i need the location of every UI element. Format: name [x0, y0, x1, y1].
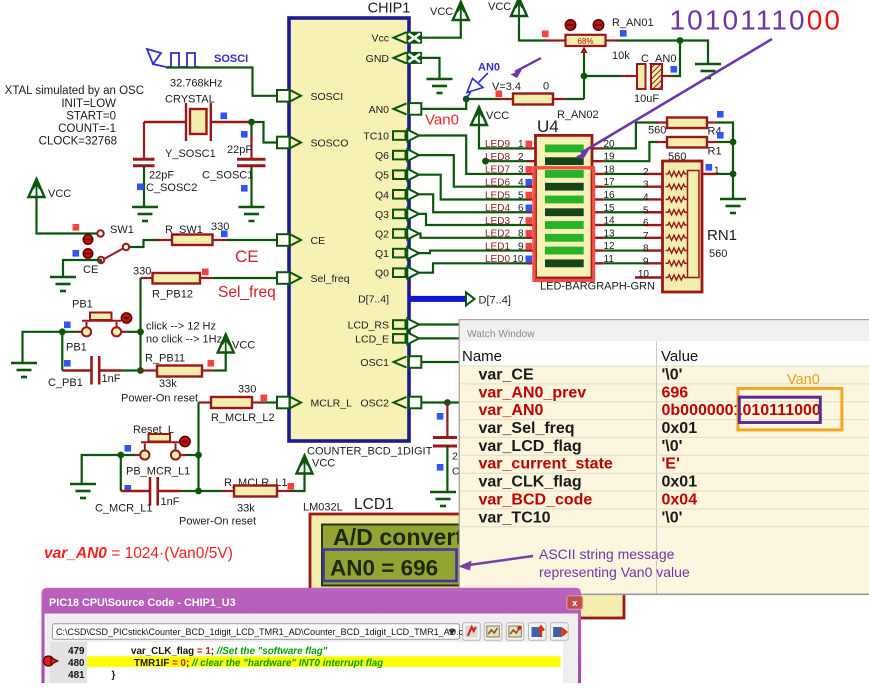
svg-text:D[7..4]: D[7..4] [358, 294, 389, 306]
capacitor C_SOSC1 [237, 159, 266, 166]
pushbutton PB1 [82, 313, 121, 337]
svg-text:VCC: VCC [232, 340, 255, 352]
LED segment LED5 (on) [545, 196, 584, 204]
pin LCD_RS output pin [393, 320, 406, 329]
svg-text:Power-On reset: Power-On reset [179, 516, 256, 528]
wire U4 pin 14 to RN1 pin 6 [604, 224, 644, 226]
watch row var_current_state [460, 454, 869, 456]
pin Sel_freq input pin [277, 272, 290, 284]
svg-text:TMR1IF = 0; // clear the "hard: TMR1IF = 0; // clear the "hardware" INT0… [134, 658, 383, 669]
voltage probe AN0 (blue) [467, 73, 489, 98]
capacitor C_MCR_L1 [121, 477, 180, 506]
marker R4 blue [717, 111, 724, 118]
svg-text:330: 330 [238, 384, 256, 396]
svg-text:var_BCD_code: var_BCD_code [479, 491, 593, 508]
U4 pin 20 stub [592, 147, 604, 149]
svg-text:U4: U4 [537, 117, 559, 136]
marker pin5 red [526, 192, 533, 199]
marker R_MCLR_L1 red [288, 483, 295, 490]
wire node to ground [680, 41, 708, 64]
resistor R_SW1 [172, 235, 213, 246]
code area [50, 642, 563, 685]
svg-text:Vcc: Vcc [371, 33, 389, 45]
potentiometer R_AN01 [545, 39, 566, 41]
pin TC10 output pin [393, 131, 406, 140]
wire C_SOSC2 to ground [143, 166, 145, 206]
svg-text:1010111000: 1010111000 [670, 5, 843, 36]
U4 pin 18 stub [592, 173, 604, 175]
wire U4 pin 16 to RN1 pin 4 [604, 198, 644, 200]
wire wiper to C_AN0 [584, 75, 622, 77]
svg-text:var_current_state: var_current_state [479, 456, 613, 473]
svg-text:SOSCI: SOSCI [311, 91, 344, 103]
wire junction to SOSCO pin [252, 122, 278, 143]
svg-text:Sel_freq: Sel_freq [218, 284, 276, 301]
svg-text:R_MCLR_L2: R_MCLR_L2 [211, 412, 275, 424]
svg-text:696: 696 [662, 384, 689, 401]
lead R1 right [707, 141, 717, 143]
svg-text:6: 6 [518, 203, 524, 214]
wire junction to R_AN02 [466, 98, 500, 100]
wire C_AN0 to node [673, 41, 680, 77]
svg-text:560: 560 [648, 125, 666, 137]
pin LCD_E output pin [393, 334, 406, 343]
svg-text:Q1: Q1 [375, 248, 389, 260]
pin GND power pin [394, 52, 407, 63]
svg-text:10k: 10k [612, 50, 630, 62]
svg-text:8: 8 [518, 229, 524, 240]
svg-text:LED2: LED2 [485, 229, 510, 240]
svg-text:LED8: LED8 [485, 152, 510, 163]
annotation arrow to LED8 [581, 39, 772, 153]
svg-text:SOSCO: SOSCO [311, 138, 349, 150]
RN1 element at y=238 [666, 235, 688, 240]
U4 pin 10 stub [527, 262, 536, 264]
wire to R_MCLR_L1 [180, 490, 222, 492]
ground [70, 484, 96, 498]
svg-text:2: 2 [452, 451, 458, 463]
svg-text:ASCII string message: ASCII string message [539, 546, 675, 562]
lead R_MCLR_L1 left [222, 490, 234, 492]
marker pin9 red [526, 243, 533, 250]
svg-text:COUNT=-1: COUNT=-1 [58, 123, 116, 135]
svg-text:6: 6 [643, 218, 649, 229]
LED segment LED8 (off) [545, 157, 584, 165]
svg-text:LED7: LED7 [485, 165, 510, 176]
resistor R_PB12 [153, 273, 201, 284]
VCC power symbol (U4) [471, 107, 487, 125]
svg-text:33k: 33k [237, 503, 255, 515]
VCC power symbol (pot) [511, 0, 527, 16]
U4 pin 8 stub [527, 237, 536, 239]
watch window title bar [460, 320, 869, 341]
wire TC10 to U4 pin 3 [419, 136, 528, 174]
resistor R_PB11 [157, 366, 202, 377]
svg-text:AN0: AN0 [369, 104, 390, 116]
junction C_PB1 / R_PB11 [137, 367, 144, 374]
marker C_OSC2 blue b [437, 464, 444, 471]
marker SW1 blue [73, 250, 80, 257]
wire SW1 lever to R_SW1 [129, 240, 160, 247]
svg-text:1nF: 1nF [161, 496, 180, 508]
svg-text:R_AN02: R_AN02 [557, 109, 599, 121]
marker C_SOSC2 blue [137, 184, 144, 191]
svg-text:LED-BARGRAPH-GRN: LED-BARGRAPH-GRN [540, 281, 655, 293]
wire PB_MCR_L1 right [180, 454, 186, 456]
resistor R1 [667, 137, 707, 148]
resistor network RN1 [663, 161, 703, 292]
svg-text:SOSCI: SOSCI [214, 53, 248, 65]
svg-text:START=0: START=0 [66, 111, 116, 123]
svg-text:C_AN0: C_AN0 [641, 53, 676, 65]
wire U4 pin 13 to RN1 pin 7 [604, 237, 644, 239]
ground [50, 277, 76, 291]
ground [132, 207, 158, 221]
LED segment LED2 (on) [545, 234, 584, 242]
wire R_MCLR_L2 down [197, 403, 199, 492]
junction R1 / rail [730, 139, 737, 146]
pin MCLR_L input pin [277, 397, 290, 409]
svg-text:representing Van0 value: representing Van0 value [539, 564, 690, 580]
marker PB1 blue b [64, 360, 71, 367]
marker V probe red [496, 91, 503, 98]
wire U4 pin 11 to RN1 pin 9 [604, 262, 644, 264]
wire Q1 to U4 pin 9 [419, 251, 528, 254]
ground [11, 363, 37, 377]
lead R_MCLR_L2 right [252, 401, 263, 403]
wire VCC to pot [519, 16, 547, 41]
svg-text:CE: CE [311, 235, 326, 247]
svg-text:XTAL simulated by an OSC: XTAL simulated by an OSC [5, 85, 144, 97]
U4 pin 1 stub [527, 147, 536, 149]
wire LCD_RS [419, 323, 462, 325]
wire pot right to node [618, 39, 680, 41]
marker SW1 red [73, 224, 80, 231]
LED segment LED4 (off) [545, 208, 584, 216]
watch row var_AN0_prev [460, 383, 869, 385]
svg-text:VCC: VCC [312, 458, 335, 470]
wire junction down to C_MCR_L1 [120, 455, 122, 491]
svg-text:OSC2: OSC2 [360, 398, 389, 410]
junction pot right [677, 37, 684, 44]
marker C_SOSC1 blue b [241, 185, 248, 192]
VCC power symbol (R_PB11) [218, 335, 234, 353]
svg-text:LED9: LED9 [485, 139, 510, 150]
svg-text:Q0: Q0 [375, 268, 389, 280]
watch row var_BCD_code [460, 490, 869, 492]
yellow highlight line 480 [87, 656, 561, 667]
marker R_PB12 red [202, 269, 209, 276]
svg-text:0x04: 0x04 [662, 491, 698, 508]
switch SW1 [97, 230, 129, 263]
marker R_SW1 blue [221, 231, 228, 238]
marker pot blue [620, 30, 627, 37]
svg-text:Van0: Van0 [425, 112, 459, 129]
marker C_OSC2 blue a [437, 413, 444, 420]
wire R_PB12 down to PB1 [139, 278, 141, 371]
svg-text:1: 1 [714, 166, 720, 177]
svg-text:VCC: VCC [488, 1, 511, 13]
wire R_AN02 to wiper junction [566, 98, 584, 100]
wire U4 pin 15 to RN1 pin 5 [604, 211, 644, 213]
svg-text:7: 7 [518, 216, 524, 227]
wire OSC2 [422, 401, 463, 403]
svg-text:32.768kHz: 32.768kHz [170, 78, 223, 90]
svg-text:3: 3 [518, 165, 524, 176]
svg-text:Q2: Q2 [375, 229, 389, 241]
pin Q5 output pin [393, 170, 406, 179]
svg-text:C_MCR_L1: C_MCR_L1 [95, 503, 152, 515]
svg-text:C_SOSC1: C_SOSC1 [202, 170, 253, 182]
U4 pin 4 stub [527, 186, 536, 188]
svg-text:0x01: 0x01 [662, 420, 698, 437]
svg-text:R_AN01: R_AN01 [612, 17, 654, 29]
marker pin10 blue [526, 256, 533, 263]
pin Q4 output pin [393, 190, 406, 199]
svg-text:Q4: Q4 [375, 189, 389, 201]
svg-text:Q3: Q3 [375, 209, 389, 221]
marker RN1 blue [706, 164, 713, 171]
svg-text:8: 8 [643, 244, 649, 255]
svg-text:10: 10 [638, 269, 650, 280]
U4 pin 7 stub [527, 224, 536, 226]
source window close button [567, 596, 583, 610]
marker pin6 blue [526, 204, 533, 211]
pin Q1 output pin [393, 249, 406, 258]
svg-text:CRYSTAL: CRYSTAL [165, 94, 215, 106]
highlight box orange [738, 389, 842, 430]
svg-text:9: 9 [643, 256, 649, 267]
RN1 element at y=251 [666, 248, 688, 253]
svg-text:var_LCD_flag: var_LCD_flag [479, 438, 582, 455]
oscillator probe OSC (blue) [147, 49, 199, 67]
svg-text:PIC18 CPU\Source Code - CHIP1_: PIC18 CPU\Source Code - CHIP1_U3 [49, 597, 236, 609]
LED segment LED7 (on) [545, 170, 584, 178]
wire OSC to SOSCI pin [166, 68, 277, 96]
svg-text:LED6: LED6 [485, 178, 510, 189]
LED segment LED3 (on) [545, 221, 584, 229]
svg-text:var_AN0 = 1024·(Van0/5V): var_AN0 = 1024·(Van0/5V) [44, 545, 233, 562]
RN1 pin 10 stub [635, 276, 663, 278]
svg-text:'\0': '\0' [662, 438, 683, 455]
code gutter [50, 642, 87, 685]
svg-text:var_CLK_flag: var_CLK_flag [479, 474, 582, 491]
RN1 element at y=278 [666, 275, 688, 280]
svg-text:1nF: 1nF [102, 373, 121, 385]
wire Q6 to U4 pin 4 [419, 155, 528, 187]
U4 pin 5 stub [527, 198, 536, 200]
svg-text:1: 1 [518, 139, 524, 150]
svg-text:'\0': '\0' [662, 366, 683, 383]
svg-text:R_PB11: R_PB11 [145, 353, 185, 365]
svg-text:C_PB1: C_PB1 [48, 377, 83, 389]
wire junction down to C_PB1 [61, 332, 63, 371]
svg-text:C_SOSC2: C_SOSC2 [146, 182, 197, 194]
watch row var_CE [460, 365, 869, 367]
chip CHIP1 body [289, 18, 409, 441]
wire R_PB11 to VCC [213, 353, 226, 371]
LED segment LED9 (on) [545, 145, 584, 153]
wire LCD_E [419, 337, 462, 339]
wire PB1 left [76, 331, 82, 333]
U4 pin 12 stub [592, 249, 604, 251]
pin CE input pin [277, 234, 290, 246]
svg-text:TC10: TC10 [363, 131, 389, 143]
U4 pin 11 stub [592, 262, 604, 264]
svg-text:AN0: AN0 [478, 62, 500, 74]
RN1 pin 1 wire [702, 173, 717, 175]
resistor R_AN02 [513, 94, 553, 105]
watch row var_TC10 [460, 508, 869, 510]
marker crystal blue [221, 113, 228, 120]
wire junction to C_SOSC1 [250, 122, 252, 139]
svg-text:OSC1: OSC1 [360, 357, 389, 369]
svg-text:Q5: Q5 [375, 170, 389, 182]
watch window header row [460, 341, 869, 366]
watch window [459, 320, 869, 595]
U4 pin 19 stub [592, 160, 604, 162]
marker PB_MCR blue b [125, 485, 132, 492]
ground (pot) [695, 64, 721, 78]
crystal Y_SOSC1 [144, 103, 252, 141]
marker pin7 red [526, 217, 533, 224]
svg-text:LED3: LED3 [485, 216, 510, 227]
ground [239, 207, 265, 221]
wire wiper down [583, 54, 585, 99]
junction PB_MCR right [195, 452, 202, 459]
svg-text:'E': 'E' [662, 456, 680, 473]
svg-text:GND: GND [366, 53, 390, 65]
svg-text:R_PB12: R_PB12 [152, 289, 193, 301]
watch window bottom edge [459, 593, 869, 595]
resistor R4 [667, 118, 707, 129]
svg-text:33k: 33k [159, 378, 177, 390]
svg-text:LED5: LED5 [485, 190, 510, 201]
svg-text:no click --> 1Hz: no click --> 1Hz [146, 334, 222, 346]
junction C_MCR / R_MCLR_L1 [195, 488, 202, 495]
watch row var_CLK_flag [460, 472, 869, 474]
svg-text:5: 5 [518, 190, 524, 201]
wire U4 pin 12 to RN1 pin 8 [604, 249, 644, 251]
junction PB1 left [59, 328, 66, 335]
svg-text:22pF: 22pF [227, 144, 252, 156]
svg-text:PB1: PB1 [72, 299, 93, 311]
annotation arrow to AN0 probe [515, 58, 541, 72]
wire SW1 bottom to ground [63, 260, 101, 276]
svg-text:0: 0 [543, 81, 549, 93]
lead R_PB12 left [141, 277, 153, 279]
svg-text:var_AN0_prev: var_AN0_prev [479, 384, 587, 401]
svg-text:CLOCK=32768: CLOCK=32768 [39, 136, 117, 148]
RN1 element at y=263 [666, 261, 688, 266]
junction wiper / C_AN0 [581, 73, 588, 80]
svg-text:'\0': '\0' [662, 509, 683, 526]
U4 pin 2 stub [527, 160, 536, 162]
marker PB_MCR blue a [125, 445, 132, 452]
svg-text:0x01: 0x01 [662, 474, 698, 491]
pin Q2 output pin [393, 229, 406, 238]
lead R_PB11 right [202, 369, 213, 371]
lead R4 right / wire to ground rail [707, 121, 717, 123]
wire C_OSC2 to ground [446, 446, 448, 491]
junction PB1 right [137, 328, 144, 335]
lead R_MCLR_L1 right [277, 490, 290, 492]
PB_MCR_L1 actuator [180, 436, 190, 446]
U4 pin 17 stub [592, 186, 604, 188]
highlight box purple [739, 397, 820, 422]
marker pin1 red [526, 141, 533, 148]
svg-text:click --> 12 Hz: click --> 12 Hz [146, 321, 216, 333]
svg-text:var_AN0: var_AN0 [479, 402, 544, 419]
annotation arrow to LCD 696 [469, 556, 533, 565]
svg-text:PB1: PB1 [66, 342, 87, 354]
svg-text:MCLR_L: MCLR_L [311, 398, 353, 410]
marker R1 blue [717, 132, 724, 139]
svg-text:Van0: Van0 [787, 372, 820, 388]
svg-text:x: x [572, 598, 578, 609]
pin Q6 output pin [393, 151, 406, 160]
U4 pin 9 stub [527, 249, 536, 251]
svg-text:10uF: 10uF [634, 93, 659, 105]
source code window [42, 588, 583, 688]
svg-text:R_SW1: R_SW1 [165, 224, 203, 236]
U4 pin 16 stub [592, 198, 604, 200]
svg-text:22pF: 22pF [149, 170, 174, 182]
toolbar button up [529, 623, 547, 641]
source path combo box [53, 624, 460, 639]
svg-text:LCD_E: LCD_E [355, 333, 389, 345]
svg-text:479: 479 [68, 646, 85, 657]
junction AN0 [463, 96, 470, 103]
svg-text:LED1: LED1 [485, 241, 510, 252]
svg-text:0b0000001010111000: 0b0000001010111000 [662, 402, 821, 419]
toolbar button right [551, 623, 569, 641]
svg-text:4: 4 [518, 178, 524, 189]
svg-text:Sel_freq: Sel_freq [311, 273, 350, 285]
pin Q0 output pin [393, 268, 406, 277]
svg-text:var_Sel_freq: var_Sel_freq [479, 420, 575, 437]
toolbar button img1 [484, 623, 502, 641]
svg-text:2: 2 [518, 152, 524, 163]
VCC power symbol (SW1) [29, 179, 45, 197]
resistor R_MCLR_L2 [211, 397, 252, 408]
capacitor C_AN0 (polarized) [622, 75, 637, 77]
svg-text:D[7..4]: D[7..4] [479, 295, 511, 307]
wire R_PB12 to Sel_freq pin [213, 277, 277, 279]
marker R_PB11 red [208, 360, 215, 367]
wire AN0 pin to junction [422, 99, 467, 109]
wire R_SW1 to CE pin [227, 239, 277, 241]
wire Q4 to U4 pin 6 [419, 194, 528, 212]
marker pin3 red [526, 166, 533, 173]
svg-text:SW1: SW1 [110, 224, 134, 236]
lead R_PB12 right [200, 277, 213, 279]
U4 pin 13 stub [592, 237, 604, 239]
junction PB_MCR left [117, 452, 124, 459]
svg-text:C:\CSD\CSD_PICstick\Counter_BC: C:\CSD\CSD_PICstick\Counter_BCD_1digit_L… [56, 627, 464, 637]
wire Q5 to U4 pin 5 [419, 175, 528, 200]
VCC power symbol (chip Vcc) [453, 2, 469, 20]
LCD LCD1 body [310, 514, 624, 618]
U4 pin 6 stub [527, 211, 536, 213]
watch row var_LCD_flag [460, 436, 869, 438]
svg-text:9: 9 [518, 241, 524, 252]
wire PB_MCR_L1 left [134, 454, 140, 456]
toolbar button img2 [506, 623, 524, 641]
svg-text:Y_SOSC1: Y_SOSC1 [165, 148, 216, 160]
svg-text:LED4: LED4 [485, 203, 510, 214]
wire C_PB1 to R_PB11 junction [122, 369, 141, 371]
